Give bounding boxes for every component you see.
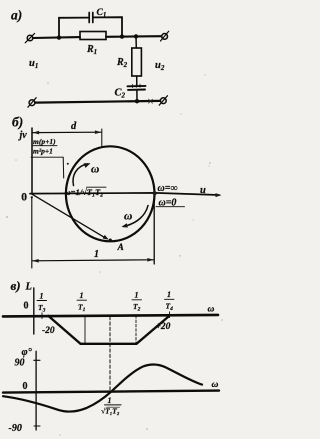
L vertical axis [33, 288, 35, 334]
svg-text:а): а) [11, 8, 22, 23]
node junction left [57, 35, 61, 39]
svg-text:ω: ω [91, 164, 99, 176]
terminal top-left [27, 35, 33, 41]
svg-text:0: 0 [24, 301, 29, 312]
svg-text:в): в) [11, 278, 21, 293]
svg-text:R2: R2 [116, 57, 128, 69]
phase curve [3, 365, 202, 412]
svg-text:T3: T3 [38, 303, 46, 314]
svg-text:-90: -90 [9, 423, 22, 434]
svg-text:m²p+1: m²p+1 [33, 146, 53, 155]
wire branch top right [94, 17, 123, 36]
capacitor C1 [88, 13, 90, 23]
svg-text:1: 1 [108, 396, 112, 405]
node origin [31, 196, 33, 198]
leader line [31, 156, 63, 158]
svg-text:R1: R1 [86, 44, 97, 56]
tick 1/T4 [169, 312, 171, 318]
connector 1/T2 dashed [135, 316, 137, 344]
phi vertical axis [35, 351, 37, 430]
L curve [48, 315, 170, 344]
nyquist circle [66, 146, 155, 241]
svg-text:u: u [200, 185, 206, 196]
svg-text:C2: C2 [115, 88, 126, 100]
node junction R2 top [134, 34, 138, 38]
fraction 1/T1 [78, 291, 86, 313]
terminal bottom-left [29, 100, 35, 106]
fraction 1/T3 [38, 292, 46, 314]
svg-text:A: A [117, 243, 124, 253]
capacitor C2 [128, 85, 146, 87]
arrow w lower [124, 206, 149, 227]
terminal bottom-right [160, 98, 166, 104]
dimension 1 [31, 197, 33, 268]
svg-text:u1: u1 [29, 58, 38, 70]
svg-text:ω=1/√T1T2: ω=1/√T1T2 [65, 187, 104, 199]
svg-text:√T₁T₂: √T₁T₂ [101, 407, 120, 416]
svg-text:ω: ω [208, 305, 215, 315]
svg-text:ω: ω [212, 380, 219, 390]
svg-text:+20: +20 [156, 322, 171, 332]
svg-text:1: 1 [80, 291, 84, 300]
wire bottom [35, 101, 159, 103]
secant 0-A [32, 194, 106, 238]
fraction 1/T2 [133, 291, 141, 313]
phi omega axis [3, 391, 219, 393]
tick 1/T3 [41, 313, 43, 319]
svg-text:u2: u2 [155, 60, 165, 72]
fraction 1/sqrt(T1T2) [101, 396, 120, 416]
svg-text:T4: T4 [166, 302, 174, 313]
L omega axis [3, 315, 218, 317]
svg-text:ω=∞: ω=∞ [158, 183, 178, 194]
node junction bottom [135, 99, 139, 103]
node w=0 dot [153, 191, 157, 195]
axis u [30, 193, 219, 195]
resistor R2 [135, 36, 137, 48]
scan specks [149, 99, 153, 103]
svg-text:1: 1 [40, 292, 44, 301]
svg-text:L: L [25, 282, 32, 293]
svg-text:б): б) [12, 115, 23, 130]
connector 1/T1 [84, 317, 86, 344]
svg-text:T1: T1 [78, 303, 86, 314]
svg-text:ω: ω [124, 211, 132, 223]
wire branch up [59, 18, 88, 38]
svg-text:0: 0 [21, 191, 27, 203]
svg-text:1: 1 [167, 290, 171, 299]
wire top main [33, 36, 80, 39]
svg-text:0: 0 [23, 381, 28, 392]
node junction mid [120, 34, 124, 38]
svg-text:-20: -20 [42, 326, 55, 336]
svg-text:m(p+1): m(p+1) [33, 137, 56, 146]
svg-text:1: 1 [135, 291, 139, 300]
svg-text:d: d [71, 121, 77, 132]
terminal top-right [162, 34, 168, 40]
arrow w upper [73, 164, 87, 186]
svg-text:90: 90 [15, 357, 25, 368]
dashed line 1/sqrt(T1T2) [109, 317, 111, 392]
svg-text:T2: T2 [133, 302, 141, 313]
fraction 1/T4 [166, 290, 174, 312]
resistor R1 [80, 32, 106, 40]
svg-text:jv: jv [18, 130, 28, 141]
svg-text:1: 1 [94, 249, 99, 260]
dimension d [33, 131, 101, 133]
axis jv [31, 128, 33, 194]
